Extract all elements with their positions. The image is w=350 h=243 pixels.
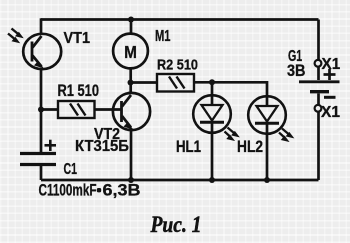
wire: HL2 cathode to bottom rail: [266, 134, 269, 180]
junction: HL1 / bottom rail: [209, 177, 215, 183]
junction: M1 / VT2 collector / R2 node: [128, 80, 134, 86]
wire: M1 stub to top rail: [130, 20, 133, 35]
wire: VT2 emitter to bottom rail: [130, 128, 133, 180]
svg-text:3В: 3В: [287, 61, 306, 80]
wire: VT2 collector lead: [129, 83, 132, 95]
transistor VT2: [113, 93, 150, 130]
svg-text:M1: M1: [155, 28, 171, 45]
resistor R2: [157, 74, 194, 92]
phototransistor VT1: [8, 29, 61, 70]
svg-text:X1: X1: [321, 104, 340, 121]
svg-text:C1: C1: [64, 161, 78, 178]
wire: HL1 cathode to bottom rail: [211, 133, 214, 180]
junction: R2 wire / HL1 anode: [209, 79, 215, 85]
wire: HL1 anode stub: [211, 82, 214, 96]
svg-text:X1: X1: [322, 56, 341, 73]
wire: R1 right lead to VT2 base: [95, 108, 122, 111]
junction: top rail / M1: [128, 17, 134, 23]
svg-text:6,3В: 6,3В: [103, 182, 141, 200]
junction: VT1 emitter / R1 left: [38, 107, 44, 113]
wire: R1 left lead: [41, 108, 58, 111]
LED HL2: [248, 96, 293, 141]
svg-text:M: M: [124, 42, 137, 62]
junction: HL2 / bottom rail: [264, 177, 270, 183]
svg-text:КТ315Б: КТ315Б: [75, 138, 129, 155]
wire: R2 left lead: [131, 81, 158, 84]
svg-text:VT1: VT1: [64, 30, 91, 47]
battery G1: [299, 69, 340, 97]
svg-text:R2 510: R2 510: [157, 57, 198, 74]
wire: VT1 emitter down to capacitor C1: [40, 69, 43, 152]
wire: bottom rail: [41, 179, 319, 182]
wire: battery / terminals column: [317, 20, 320, 61]
wire: top supply rail: [41, 18, 319, 21]
label C1 value 100mkF 6,3V: [39, 182, 141, 200]
junction: VT2 emitter / bottom rail: [128, 177, 134, 183]
capacitor C1: [20, 140, 56, 165]
svg-text:HL2: HL2: [237, 138, 263, 156]
motor M1: [113, 34, 148, 69]
wire: C1 bottom lead: [40, 166, 43, 180]
LED HL1: [193, 95, 238, 140]
wire: M1 bottom to collector node: [129, 68, 132, 82]
svg-text:R1 510: R1 510: [58, 82, 100, 100]
svg-text:C1100mkF: C1100mkF: [39, 182, 97, 200]
resistor R1: [58, 101, 95, 118]
terminal X1 bottom: [315, 105, 322, 112]
svg-text:HL1: HL1: [176, 138, 201, 156]
svg-text:Рис. 1: Рис. 1: [150, 212, 202, 237]
terminal X1 top: [315, 60, 322, 67]
wire: R2 right lead to HL2 anode: [194, 82, 267, 96]
wire: VT1 collector lead: [40, 18, 43, 34]
